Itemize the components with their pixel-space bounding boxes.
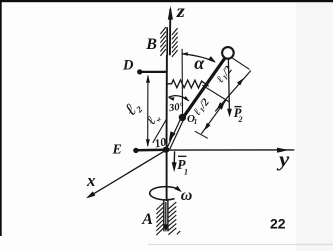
- svg-text:ω: ω: [181, 187, 193, 204]
- svg-text:E: E: [112, 143, 122, 158]
- svg-text:1: 1: [184, 168, 188, 177]
- svg-text:α: α: [194, 53, 205, 73]
- svg-text:B: B: [145, 36, 157, 53]
- svg-text:1: 1: [194, 118, 198, 126]
- svg-text:A: A: [141, 211, 153, 228]
- svg-text:z: z: [176, 2, 186, 21]
- svg-text:x: x: [86, 171, 96, 190]
- svg-text:D: D: [122, 58, 134, 74]
- svg-text:30°: 30°: [167, 101, 185, 114]
- svg-text:22: 22: [270, 216, 286, 232]
- svg-text:2: 2: [238, 115, 243, 124]
